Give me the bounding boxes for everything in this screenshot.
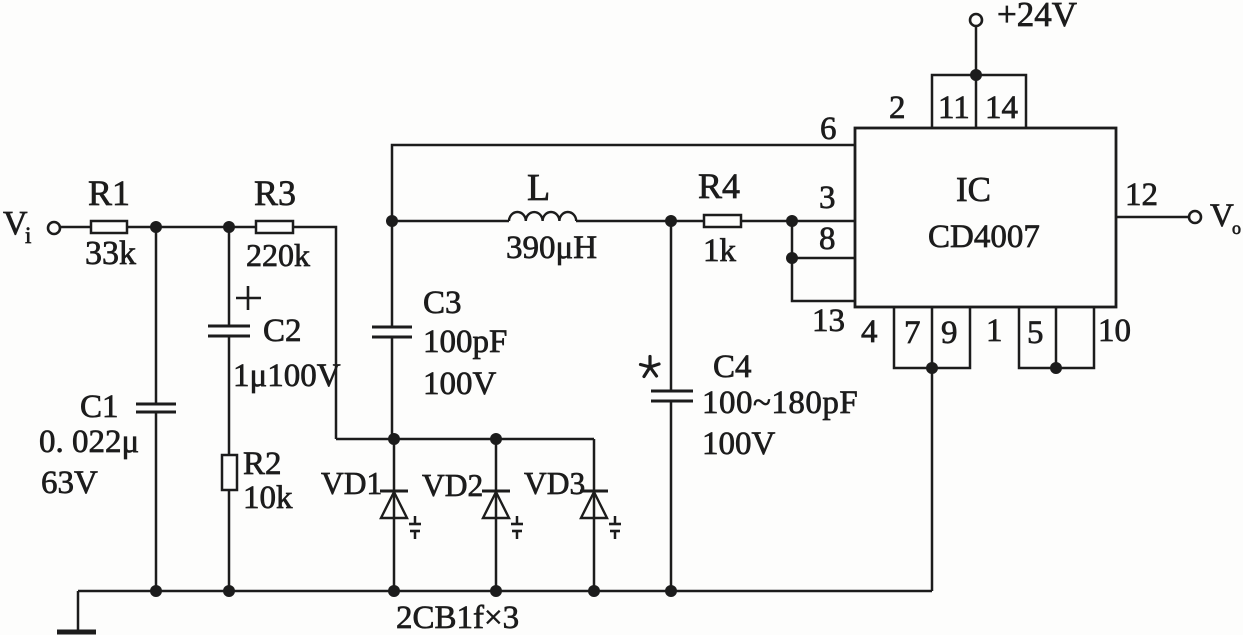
- node Q junction (+24V tie): [970, 69, 982, 81]
- wire +24V to bracket: [975, 26, 978, 75]
- resistor R3 220k: [246, 173, 310, 273]
- wire node A to node B: [156, 226, 229, 229]
- varactor diode VD2: [422, 439, 523, 591]
- node L junction (VD1 gnd): [388, 585, 400, 597]
- svg-text:i: i: [25, 223, 31, 248]
- varactor diode VD1: [321, 439, 421, 591]
- node F junction: [786, 252, 798, 264]
- resistor R1 33k: [85, 173, 136, 272]
- svg-text:VD3: VD3: [524, 466, 585, 501]
- node J junction (C1 gnd): [150, 585, 162, 597]
- svg-text:7: 7: [904, 315, 921, 351]
- svg-text:1: 1: [986, 313, 1003, 349]
- wire node C to L: [392, 220, 509, 223]
- resistor R4 1k: [698, 166, 741, 269]
- wire L to node D: [576, 220, 671, 223]
- wire IC gnd pins down to rail: [931, 368, 934, 591]
- svg-text:VD2: VD2: [422, 468, 483, 503]
- node K junction (R2 gnd): [223, 585, 235, 597]
- ground rail wire: [78, 590, 932, 593]
- input terminal Vi: [48, 222, 60, 234]
- svg-text:5: 5: [1027, 315, 1044, 351]
- wire pin 3: [792, 220, 855, 223]
- svg-text:14: 14: [985, 90, 1018, 126]
- output terminal Vo: [1189, 198, 1241, 238]
- node D junction (C4 top): [665, 215, 677, 227]
- wire node F down and right pin 13: [792, 258, 855, 301]
- capacitor C1 0.022u 63V: [39, 227, 176, 591]
- capacitor C4 100~180pF 100V: [641, 221, 859, 591]
- svg-text:C3: C3: [423, 285, 462, 321]
- svg-text:3: 3: [819, 180, 836, 216]
- node H junction (VD2 top): [490, 433, 502, 445]
- svg-text:1μ100V: 1μ100V: [233, 358, 341, 394]
- ground symbol: [57, 591, 96, 632]
- svg-text:R3: R3: [254, 173, 296, 213]
- svg-text:+24V: +24V: [997, 0, 1077, 34]
- svg-text:2CB1f×3: 2CB1f×3: [396, 600, 519, 635]
- node B junction: [223, 221, 235, 233]
- svg-text:33k: 33k: [85, 235, 136, 272]
- svg-text:6: 6: [820, 111, 837, 147]
- wire node E down to node F: [791, 221, 794, 258]
- svg-text:12: 12: [1125, 177, 1158, 213]
- wire node B to R3: [229, 226, 256, 229]
- bottom bracket pins 5: [1019, 307, 1094, 368]
- svg-text:R1: R1: [88, 173, 130, 213]
- svg-text:8: 8: [819, 221, 836, 257]
- svg-text:IC: IC: [956, 170, 991, 209]
- svg-text:100pF: 100pF: [423, 324, 507, 360]
- wire pin 6 from C3 top to IC: [392, 145, 855, 221]
- svg-text:9: 9: [941, 315, 958, 351]
- wire R1 to node A: [127, 226, 156, 229]
- wire Vi to R1: [60, 226, 91, 229]
- node M junction (VD2 gnd): [490, 585, 502, 597]
- svg-text:4: 4: [861, 314, 878, 350]
- svg-text:13: 13: [812, 303, 845, 339]
- svg-text:2: 2: [889, 90, 906, 126]
- node R junction (gnd pins tie): [926, 362, 938, 374]
- supply bracket pins 11 14: [932, 75, 1026, 128]
- svg-text:o: o: [1232, 218, 1241, 238]
- svg-text:100V: 100V: [702, 426, 776, 462]
- svg-text:220k: 220k: [246, 237, 310, 273]
- label Vi text: [3, 205, 31, 248]
- node S junction (bracket 5 tie): [1050, 362, 1062, 374]
- svg-text:10k: 10k: [243, 480, 293, 516]
- svg-text:390μH: 390μH: [506, 230, 597, 266]
- capacitor C2 1u100V electrolytic: [208, 227, 341, 455]
- svg-text:63V: 63V: [41, 465, 98, 501]
- node E junction (pin3/8/13 tie): [786, 215, 798, 227]
- svg-text:CD4007: CD4007: [928, 219, 1040, 255]
- svg-text:L: L: [527, 167, 550, 209]
- svg-text:R4: R4: [698, 166, 740, 206]
- resistor R2 10k: [222, 446, 293, 591]
- supply terminal +24V: [970, 0, 1077, 34]
- wire R4 to node E: [741, 220, 792, 223]
- svg-text:11: 11: [938, 90, 970, 126]
- svg-text:C4: C4: [713, 349, 752, 385]
- svg-text:10: 10: [1098, 313, 1131, 349]
- wire pin 12 output: [1116, 216, 1189, 219]
- svg-text:C1: C1: [80, 389, 119, 425]
- node G junction (VD1 top): [388, 433, 400, 445]
- IC U1 CD4007: [855, 128, 1116, 307]
- svg-text:1k: 1k: [703, 233, 737, 269]
- svg-text:R2: R2: [243, 446, 282, 482]
- svg-text:100V: 100V: [423, 366, 497, 402]
- node C junction (C3 top on LC line): [386, 215, 398, 227]
- node N junction (VD3 gnd): [588, 585, 600, 597]
- svg-text:VD1: VD1: [321, 466, 382, 501]
- bottom bracket pins 7 9: [894, 307, 970, 368]
- svg-text:C2: C2: [263, 313, 302, 349]
- node P junction (C4 gnd): [665, 585, 677, 597]
- varactor diode VD3: [524, 439, 621, 591]
- node A junction: [150, 221, 162, 233]
- inductor L 390uH: [506, 167, 597, 266]
- svg-text:V: V: [1210, 198, 1234, 234]
- wire pin 8: [792, 257, 855, 260]
- wire R3 right corner down to diode rail: [293, 227, 336, 439]
- svg-text:100~180pF: 100~180pF: [702, 385, 858, 421]
- capacitor C3 100pF 100V: [372, 221, 507, 439]
- wire node D to R4: [671, 220, 704, 223]
- svg-text:0. 022μ: 0. 022μ: [39, 424, 139, 460]
- diode cathode rail wire: [336, 438, 594, 441]
